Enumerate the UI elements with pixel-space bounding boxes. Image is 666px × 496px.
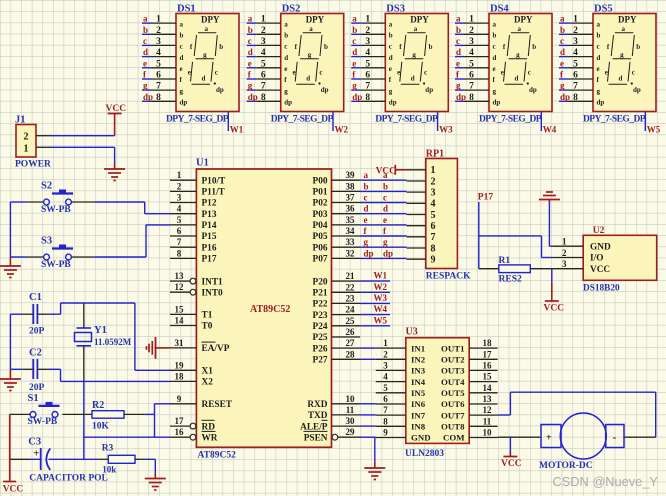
node dp bbox=[456, 92, 466, 102]
svg-text:5: 5 bbox=[383, 383, 388, 393]
svg-text:18: 18 bbox=[483, 338, 493, 348]
svg-text:e: e bbox=[143, 58, 147, 68]
svg-text:ALE/P: ALE/P bbox=[300, 422, 328, 432]
svg-text:P01: P01 bbox=[313, 188, 328, 198]
pin 25 (P24) of U1 bbox=[313, 316, 360, 332]
node e bbox=[248, 58, 252, 68]
svg-text:P27: P27 bbox=[313, 356, 328, 366]
pin 5 of RP1 bbox=[407, 214, 426, 216]
pin 8 (dp) of DS1 bbox=[152, 93, 177, 103]
svg-text:g: g bbox=[364, 237, 369, 247]
wire S3 to P14 bbox=[72, 225, 171, 257]
wire W1 stub at U1 bbox=[360, 280, 390, 282]
wire PSEN-GND to ground bbox=[374, 437, 376, 462]
svg-text:RESPACK: RESPACK bbox=[426, 272, 471, 282]
svg-text:8: 8 bbox=[431, 243, 436, 254]
wire C2 to X2 bbox=[37, 369, 170, 381]
svg-text:W1: W1 bbox=[374, 271, 388, 281]
wire W3 stub at U1 bbox=[360, 302, 390, 304]
connector J1 bbox=[15, 115, 51, 170]
node e bbox=[560, 58, 564, 68]
svg-text:d: d bbox=[180, 54, 184, 62]
pin 4 (d) of DS2 bbox=[256, 48, 281, 58]
svg-text:b: b bbox=[636, 43, 640, 51]
svg-text:P03: P03 bbox=[313, 210, 328, 220]
wire S2 to P13 bbox=[72, 202, 171, 214]
svg-text:2: 2 bbox=[365, 26, 370, 36]
pin 12 (OUT7) of U3 bbox=[469, 405, 497, 415]
node a bbox=[143, 14, 148, 24]
svg-text:6: 6 bbox=[156, 71, 161, 81]
wire net dp U1 to RP1 bbox=[360, 257, 407, 259]
svg-text:e: e bbox=[605, 69, 608, 77]
node f bbox=[143, 70, 147, 80]
pin 24 (P23) of U1 bbox=[313, 305, 360, 321]
svg-text:g: g bbox=[308, 51, 312, 59]
pin 5 (IN5) of U3 bbox=[376, 383, 406, 393]
wire net f bbox=[455, 78, 465, 80]
svg-text:8: 8 bbox=[469, 93, 474, 103]
svg-text:5: 5 bbox=[573, 59, 578, 69]
svg-text:b: b bbox=[389, 32, 393, 40]
node W4 bbox=[543, 125, 557, 135]
svg-text:I/O: I/O bbox=[590, 254, 603, 264]
svg-text:6: 6 bbox=[261, 71, 266, 81]
node W3 at U1 bbox=[374, 293, 388, 303]
svg-text:4: 4 bbox=[469, 48, 474, 58]
svg-text:e: e bbox=[293, 69, 296, 77]
wire net c bbox=[559, 44, 569, 46]
svg-text:P17: P17 bbox=[202, 255, 217, 265]
node dp at U1 bbox=[364, 248, 374, 258]
pin 3 (P12) of U1 bbox=[170, 193, 217, 209]
label DPY_7-SEG_DP of DS2 bbox=[271, 115, 334, 125]
node g bbox=[248, 81, 253, 91]
wire net g bbox=[142, 89, 152, 91]
svg-text:18: 18 bbox=[175, 371, 185, 381]
svg-text:a: a bbox=[309, 25, 313, 33]
svg-text:VCC: VCC bbox=[501, 459, 522, 469]
wire net d bbox=[559, 56, 569, 58]
driver U3 ULN2803 bbox=[405, 327, 469, 460]
node g bbox=[352, 81, 357, 91]
svg-text:Y1: Y1 bbox=[94, 325, 107, 336]
svg-text:a: a bbox=[180, 20, 184, 28]
wire J1 pin2 to VCC bbox=[52, 135, 115, 137]
wire net b bbox=[351, 33, 361, 35]
pin 8 (dp) of DS5 bbox=[569, 93, 594, 103]
svg-text:P15: P15 bbox=[202, 232, 217, 242]
pin 2 (b) of DS4 bbox=[465, 26, 490, 36]
svg-text:dp: dp bbox=[560, 92, 570, 102]
svg-text:20P: 20P bbox=[29, 327, 45, 337]
svg-text:11.0592M: 11.0592M bbox=[94, 337, 132, 347]
node c bbox=[143, 36, 147, 46]
svg-text:IN3: IN3 bbox=[411, 366, 426, 376]
svg-text:dp: dp bbox=[493, 99, 501, 107]
svg-text:OUT4: OUT4 bbox=[441, 377, 465, 387]
pin 17 (OUT2) of U3 bbox=[469, 349, 497, 359]
wire net b U1 to RP1 bbox=[360, 190, 407, 192]
node dp bbox=[248, 92, 258, 102]
svg-text:4: 4 bbox=[365, 48, 370, 58]
svg-text:OUT2: OUT2 bbox=[441, 355, 465, 365]
svg-text:e: e bbox=[284, 65, 287, 73]
pin 31 (EA/VP) of U1 bbox=[170, 338, 230, 354]
svg-text:7: 7 bbox=[383, 405, 388, 415]
svg-text:U1: U1 bbox=[196, 158, 209, 169]
svg-text:IN5: IN5 bbox=[411, 388, 426, 398]
wire net d bbox=[142, 56, 152, 58]
node d bbox=[248, 47, 253, 57]
svg-text:1: 1 bbox=[156, 15, 161, 25]
wire crystal to reset row bbox=[84, 381, 155, 459]
svg-text:10k: 10k bbox=[102, 465, 116, 475]
svg-text:37: 37 bbox=[346, 193, 356, 203]
svg-text:7: 7 bbox=[469, 82, 474, 92]
svg-text:U2: U2 bbox=[593, 226, 605, 236]
svg-text:DPY: DPY bbox=[514, 15, 533, 25]
pin 32 (P07) of U1 bbox=[313, 248, 360, 264]
svg-text:12: 12 bbox=[483, 405, 493, 415]
svg-text:4: 4 bbox=[261, 48, 266, 58]
pin 8 of RP1 bbox=[407, 247, 426, 249]
wire C1 to X1 loop bbox=[37, 303, 170, 370]
svg-text:9: 9 bbox=[431, 255, 436, 266]
svg-text:3: 3 bbox=[431, 187, 436, 198]
svg-text:7: 7 bbox=[573, 82, 578, 92]
svg-text:d: d bbox=[493, 54, 497, 62]
wire net a bbox=[559, 22, 569, 24]
svg-text:g: g bbox=[516, 51, 520, 59]
pin 1 (P10/T) of U1 bbox=[170, 170, 226, 186]
svg-text:7: 7 bbox=[261, 82, 266, 92]
pin 11 (OUT8) of U3 bbox=[469, 416, 497, 426]
svg-text:P23: P23 bbox=[313, 311, 328, 321]
pin 5 (e) of DS5 bbox=[569, 59, 594, 69]
svg-text:EA/VP: EA/VP bbox=[202, 344, 230, 354]
svg-text:DS5: DS5 bbox=[594, 4, 613, 15]
svg-text:33: 33 bbox=[346, 237, 356, 247]
wire net a bbox=[247, 22, 257, 24]
svg-text:dp: dp bbox=[364, 248, 374, 258]
svg-text:a: a bbox=[414, 25, 418, 33]
node d bbox=[143, 47, 148, 57]
wire net e bbox=[455, 67, 465, 69]
node W1 bbox=[230, 125, 244, 135]
pin 7 (IN7) of U3 bbox=[376, 405, 406, 415]
svg-text:c: c bbox=[389, 43, 392, 51]
svg-text:1: 1 bbox=[573, 15, 578, 25]
pin 8 (P17) of U1 bbox=[170, 248, 217, 264]
svg-text:6: 6 bbox=[469, 71, 474, 81]
svg-text:DPY: DPY bbox=[201, 15, 220, 25]
pin 6 of RP1 bbox=[407, 225, 426, 227]
pin 9 (RESET) of U1 bbox=[170, 394, 233, 410]
svg-text:c: c bbox=[456, 36, 460, 46]
svg-text:c: c bbox=[493, 43, 496, 51]
svg-text:c: c bbox=[632, 69, 635, 77]
mcu U1 AT89C52 bbox=[196, 158, 332, 461]
pin 7 (g) of DS4 bbox=[465, 82, 490, 92]
node b bbox=[248, 25, 253, 35]
node c bbox=[456, 36, 460, 46]
svg-text:P26: P26 bbox=[313, 344, 328, 354]
svg-text:e: e bbox=[501, 69, 504, 77]
watermark bbox=[553, 474, 659, 489]
svg-text:d: d bbox=[515, 75, 519, 83]
wire net e bbox=[247, 67, 257, 69]
svg-text:c: c bbox=[215, 69, 218, 77]
capacitor C3 bbox=[28, 437, 108, 484]
wire W2 stub at U1 bbox=[360, 291, 390, 293]
node W1 at U1 bbox=[374, 271, 388, 281]
pin 38 (P01) of U1 bbox=[313, 181, 360, 197]
svg-text:IN8: IN8 bbox=[411, 422, 426, 432]
svg-text:W2: W2 bbox=[374, 282, 388, 292]
wire net a bbox=[455, 22, 465, 24]
ground below S3 bbox=[0, 257, 21, 278]
wire net b bbox=[247, 33, 257, 35]
svg-text:8: 8 bbox=[177, 248, 182, 258]
ground at EA/VP pin bbox=[147, 337, 171, 359]
node c bbox=[560, 36, 564, 46]
wire W3 stub bbox=[437, 112, 439, 132]
svg-text:8: 8 bbox=[365, 93, 370, 103]
wire net b bbox=[559, 33, 569, 35]
pin 5 (e) of DS3 bbox=[361, 59, 386, 69]
pin 2 of J1 bbox=[36, 135, 52, 137]
pin 14 (T0) of U1 bbox=[170, 316, 213, 332]
wire net a bbox=[351, 22, 361, 24]
svg-text:d: d bbox=[248, 47, 253, 57]
svg-text:c: c bbox=[180, 43, 183, 51]
svg-text:a: a bbox=[597, 20, 601, 28]
svg-text:c: c bbox=[248, 36, 252, 46]
svg-text:10K: 10K bbox=[92, 422, 110, 432]
wire junction to WR bbox=[155, 436, 171, 438]
pin 6 (f) of DS4 bbox=[465, 71, 490, 81]
svg-text:P24: P24 bbox=[313, 322, 328, 332]
pin 15 (OUT4) of U3 bbox=[469, 372, 497, 382]
svg-text:7: 7 bbox=[177, 237, 182, 247]
svg-text:dp: dp bbox=[456, 92, 466, 102]
svg-text:VCC: VCC bbox=[106, 104, 127, 114]
svg-text:d: d bbox=[597, 54, 601, 62]
node f bbox=[560, 70, 564, 80]
node d bbox=[560, 47, 565, 57]
svg-text:c: c bbox=[560, 36, 564, 46]
pin 9 of RP1 bbox=[407, 258, 426, 260]
svg-text:SW-PB: SW-PB bbox=[41, 260, 71, 270]
pin 1 (a) of DS5 bbox=[569, 15, 594, 25]
node W4 at U1 bbox=[374, 304, 388, 314]
svg-text:3: 3 bbox=[573, 37, 578, 47]
switch S1 bbox=[28, 393, 60, 427]
svg-text:8: 8 bbox=[261, 93, 266, 103]
pin 4 (d) of DS4 bbox=[465, 48, 490, 58]
sensor U2 DS18B20 bbox=[583, 226, 657, 294]
capacitor C1 bbox=[29, 292, 45, 337]
svg-text:9: 9 bbox=[383, 428, 388, 438]
svg-text:b: b bbox=[429, 43, 433, 51]
svg-text:GND: GND bbox=[411, 433, 431, 443]
ground below J1 bbox=[104, 163, 125, 181]
svg-text:12: 12 bbox=[175, 282, 185, 292]
svg-text:P07: P07 bbox=[313, 255, 328, 265]
label DPY_7-SEG_DP of DS1 bbox=[166, 115, 229, 125]
svg-text:a: a bbox=[143, 14, 148, 24]
svg-text:b: b bbox=[364, 181, 369, 191]
svg-text:e: e bbox=[188, 69, 191, 77]
node f at RP1 bbox=[383, 226, 387, 236]
svg-text:2: 2 bbox=[261, 26, 266, 36]
node c at U1 bbox=[364, 193, 368, 203]
svg-text:X1: X1 bbox=[202, 367, 214, 377]
switch S2 bbox=[41, 181, 73, 215]
svg-text:VCC: VCC bbox=[376, 166, 396, 176]
svg-text:b: b bbox=[383, 181, 388, 191]
power VCC at RP1 pin1 bbox=[376, 165, 407, 176]
svg-text:OUT1: OUT1 bbox=[441, 343, 464, 353]
wire net dp bbox=[559, 100, 569, 102]
svg-text:P06: P06 bbox=[313, 243, 328, 253]
svg-text:e: e bbox=[456, 58, 460, 68]
wire net dp bbox=[247, 100, 257, 102]
wire net a U1 to RP1 bbox=[360, 179, 407, 181]
pin 22 (P21) of U1 bbox=[313, 282, 360, 298]
wire W5 stub bbox=[644, 112, 646, 132]
pin 4 (IN4) of U3 bbox=[376, 372, 406, 382]
svg-text:INT0: INT0 bbox=[202, 288, 224, 298]
svg-text:e: e bbox=[397, 69, 400, 77]
wire W2 stub bbox=[332, 112, 334, 132]
svg-text:DS4: DS4 bbox=[490, 4, 509, 15]
node b at RP1 bbox=[383, 181, 388, 191]
ground below U3 GND bbox=[364, 462, 385, 480]
svg-text:CSDN @Nueve_Y: CSDN @Nueve_Y bbox=[553, 474, 659, 489]
svg-text:d: d bbox=[284, 54, 288, 62]
svg-text:a: a bbox=[284, 20, 288, 28]
wire net f bbox=[351, 78, 361, 80]
pin 4 (d) of DS3 bbox=[361, 48, 386, 58]
pin 3 of U2 bbox=[552, 259, 583, 269]
node f bbox=[456, 70, 460, 80]
svg-text:g: g bbox=[389, 87, 393, 95]
svg-text:RES2: RES2 bbox=[499, 275, 522, 285]
svg-text:dp: dp bbox=[284, 99, 292, 107]
pin 6 (IN6) of U3 bbox=[376, 394, 406, 404]
svg-text:dp: dp bbox=[321, 86, 329, 94]
wire U1 to U3 bbox=[360, 436, 376, 438]
node W3 bbox=[439, 125, 453, 135]
svg-text:3: 3 bbox=[469, 37, 474, 47]
svg-text:DPY: DPY bbox=[410, 15, 429, 25]
pin 6 (P15) of U1 bbox=[170, 226, 217, 242]
svg-text:14: 14 bbox=[175, 316, 185, 326]
node g bbox=[456, 81, 461, 91]
svg-text:35: 35 bbox=[346, 215, 356, 225]
svg-text:6: 6 bbox=[431, 221, 436, 232]
svg-text:d: d bbox=[389, 54, 393, 62]
pin 10 (COM) of U3 bbox=[469, 428, 497, 438]
wire net d U1 to RP1 bbox=[360, 213, 407, 215]
svg-text:3: 3 bbox=[177, 193, 182, 203]
node W5 bbox=[647, 125, 661, 135]
svg-text:10: 10 bbox=[483, 428, 493, 438]
svg-text:e: e bbox=[560, 58, 564, 68]
svg-text:b: b bbox=[180, 32, 184, 40]
capacitor C2 bbox=[29, 348, 45, 394]
svg-text:g: g bbox=[620, 51, 624, 59]
node g bbox=[560, 81, 565, 91]
svg-text:dp: dp bbox=[389, 99, 397, 107]
svg-text:P20: P20 bbox=[313, 277, 328, 287]
svg-text:g: g bbox=[143, 81, 148, 91]
svg-text:b: b bbox=[560, 25, 565, 35]
svg-text:8: 8 bbox=[156, 93, 161, 103]
svg-text:DS1: DS1 bbox=[177, 4, 196, 15]
wire net g bbox=[559, 89, 569, 91]
svg-text:W1: W1 bbox=[230, 125, 244, 135]
wire net c bbox=[455, 44, 465, 46]
pin 27 (P26) of U1 bbox=[313, 338, 360, 354]
svg-text:3: 3 bbox=[365, 37, 370, 47]
svg-text:a: a bbox=[493, 20, 497, 28]
wire net c bbox=[142, 44, 152, 46]
pin 10 (RXD) of U1 bbox=[307, 394, 360, 410]
svg-text:5: 5 bbox=[469, 59, 474, 69]
svg-text:g: g bbox=[248, 81, 253, 91]
svg-text:3: 3 bbox=[261, 37, 266, 47]
svg-text:VCC: VCC bbox=[3, 485, 24, 495]
svg-text:W4: W4 bbox=[374, 304, 388, 314]
wire ground to GND pin bbox=[549, 202, 552, 246]
svg-text:dp: dp bbox=[529, 86, 537, 94]
resistor pack RP1 bbox=[426, 149, 471, 282]
svg-text:34: 34 bbox=[346, 226, 356, 236]
svg-text:a: a bbox=[518, 25, 522, 33]
svg-text:S2: S2 bbox=[41, 181, 52, 192]
svg-text:P17: P17 bbox=[478, 193, 494, 203]
svg-text:17: 17 bbox=[175, 416, 185, 426]
svg-text:C1: C1 bbox=[29, 292, 42, 303]
svg-text:W4: W4 bbox=[543, 125, 557, 135]
svg-text:2: 2 bbox=[469, 26, 474, 36]
wire net d bbox=[455, 56, 465, 58]
svg-text:DPY_7-SEG_DP: DPY_7-SEG_DP bbox=[166, 115, 229, 125]
pin 7 (g) of DS1 bbox=[152, 82, 177, 92]
wire R3 to ground bbox=[135, 459, 155, 473]
svg-text:c: c bbox=[528, 69, 531, 77]
pin 18 (X2) of U1 bbox=[170, 371, 213, 387]
node P17 bbox=[478, 193, 494, 203]
svg-text:RP1: RP1 bbox=[426, 149, 444, 160]
svg-text:e: e bbox=[180, 65, 183, 73]
pin 11 (TXD) of U1 bbox=[308, 405, 360, 421]
svg-text:S1: S1 bbox=[28, 393, 39, 404]
svg-text:5: 5 bbox=[261, 59, 266, 69]
svg-text:36: 36 bbox=[346, 204, 356, 214]
svg-text:+: + bbox=[33, 449, 39, 460]
pin 7 of RP1 bbox=[407, 236, 426, 238]
wire W4 stub bbox=[540, 112, 542, 132]
node a at U1 bbox=[364, 170, 369, 180]
pin 1 of RP1 bbox=[407, 169, 426, 171]
node a at RP1 bbox=[383, 170, 388, 180]
wire net e bbox=[351, 67, 361, 69]
svg-text:VCC: VCC bbox=[544, 304, 565, 314]
